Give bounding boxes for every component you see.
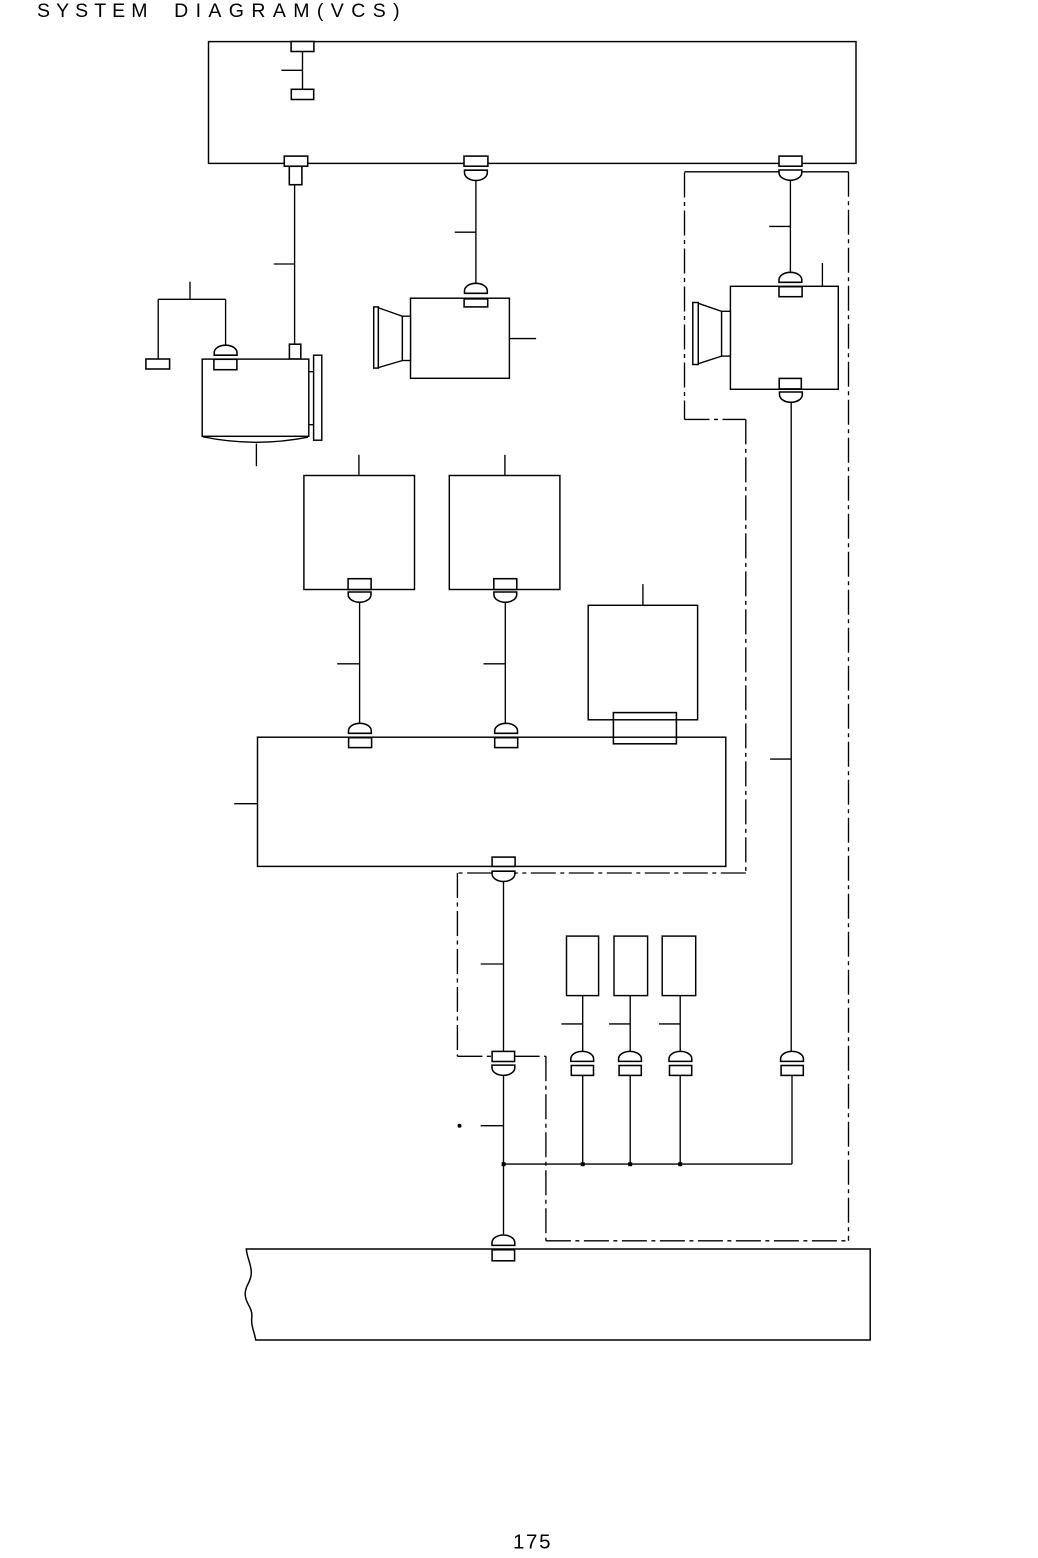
tick on wire W14 — [659, 1023, 680, 1025]
wire W12 upper — [582, 996, 584, 1052]
terminal R3 — [289, 344, 300, 359]
tick on wire W1 — [274, 263, 295, 265]
wire W13 lower — [629, 1075, 631, 1164]
shield dash-dot left edge — [684, 173, 686, 420]
connector C8 socket — [348, 592, 371, 602]
wire W11 upper — [503, 882, 505, 1052]
shield dash-dot segment e — [456, 873, 458, 1056]
junction dot 4 — [678, 1162, 682, 1166]
wire W4 upper — [790, 402, 792, 1051]
speaker right lead — [225, 299, 227, 345]
bus wire — [504, 1163, 793, 1165]
svg-text:175: 175 — [513, 1531, 551, 1554]
tick on wire W13 — [609, 1023, 630, 1025]
box A stub — [358, 455, 360, 476]
box: sensor 2 — [614, 936, 648, 996]
connector C6 socket — [779, 392, 802, 402]
box: relay B — [449, 476, 560, 590]
wire W11 lower — [503, 1075, 505, 1234]
connector C12 socket — [492, 871, 515, 881]
speaker magnet plate — [314, 355, 322, 440]
connector C6 tab — [779, 378, 801, 389]
wire W10 — [504, 602, 506, 723]
connector C3 socket — [779, 170, 802, 180]
connector C11 plug — [495, 723, 518, 733]
fuse symbol lead — [302, 52, 304, 90]
connector C4 tab — [464, 299, 488, 307]
connector C1 tab — [284, 156, 307, 166]
box: relay A — [304, 476, 415, 590]
speaker plate link lower — [309, 424, 314, 426]
connector C7 plug — [214, 345, 237, 355]
tick on wire W2 — [455, 231, 476, 233]
tick on wire W10 — [484, 663, 506, 665]
inner shield box top edge — [685, 171, 849, 173]
box: main harness (top) — [209, 42, 857, 164]
box: sensor 1 — [567, 936, 599, 996]
shield dash-dot segment h — [545, 1056, 547, 1241]
junction dot 3 — [628, 1162, 632, 1166]
wire W12 lower — [582, 1075, 584, 1164]
shield dash-dot segment b — [745, 419, 747, 873]
tick on wire W11 a — [481, 963, 504, 965]
connector C4 plug — [465, 283, 488, 293]
connector C9 socket — [494, 592, 517, 602]
connector C17 plug — [781, 1051, 804, 1061]
tick on wire W11 b — [481, 1125, 504, 1127]
connector C10 plug — [349, 723, 372, 733]
tick right of left camera — [509, 338, 536, 340]
connector C12 tab — [492, 857, 515, 866]
box C stub — [642, 584, 644, 605]
camera right lens neck — [722, 311, 731, 356]
box: relay C — [588, 605, 697, 720]
speaker feed stub — [189, 282, 191, 300]
box B stub — [504, 455, 506, 476]
connector C10 tab — [349, 738, 372, 748]
shield dash-dot segment a — [685, 418, 746, 420]
connector C2 tab — [464, 156, 488, 166]
wire W9 — [359, 602, 361, 723]
tick above right camera — [821, 263, 823, 286]
page number 175 — [513, 1531, 551, 1554]
terminal R2 — [146, 359, 170, 369]
junction dot 2 — [581, 1162, 585, 1166]
connector C15 plug — [619, 1051, 642, 1061]
shield dash-dot right edge — [848, 172, 850, 1241]
connector C1 plug — [289, 166, 302, 184]
wire W13 upper — [629, 996, 631, 1052]
junction dot 1 — [502, 1162, 506, 1166]
connector R4 block — [613, 713, 676, 744]
connector C17 tab — [781, 1066, 803, 1076]
speaker plate link upper — [309, 371, 314, 373]
connector C9 tab — [494, 579, 517, 590]
camera right lens cone — [698, 303, 721, 363]
speaker cone arc — [203, 437, 308, 442]
camera left lens cone — [378, 308, 402, 368]
box: camera unit right — [730, 286, 838, 389]
speaker feed horizontal — [158, 298, 225, 300]
speaker left lead — [157, 299, 159, 359]
box: vehicle body (bottom) — [245, 1249, 870, 1340]
speaker bottom stub — [255, 444, 257, 467]
tick on wire W12 — [561, 1023, 582, 1025]
shield dash-dot segment d — [457, 872, 492, 874]
wire W1 — [294, 185, 296, 345]
connector C5 tab — [779, 287, 802, 297]
wire W2 — [475, 181, 477, 284]
connector C18 tab — [492, 1250, 514, 1261]
wire W4 lower — [791, 1075, 793, 1164]
fuse symbol tick — [281, 69, 302, 71]
wire W14 lower — [679, 1075, 681, 1164]
connector C16 tab — [670, 1066, 692, 1076]
tick on wire W9 — [337, 663, 359, 665]
tick left of control unit — [234, 803, 257, 805]
connector C3 tab — [779, 156, 802, 166]
camera right lens hood — [693, 303, 699, 365]
connector C5 plug — [779, 272, 802, 282]
box: sensor 3 — [662, 936, 696, 996]
box: control unit (wide) — [258, 737, 726, 866]
fuse symbol top terminal — [291, 42, 314, 52]
connector C18 plug — [492, 1235, 515, 1245]
wire W14 upper — [679, 996, 681, 1052]
connector C2 socket — [465, 170, 488, 180]
connector C8 tab — [348, 579, 371, 590]
shield dash-dot segment i — [546, 1240, 849, 1242]
connector C14 plug — [571, 1051, 594, 1061]
wire W3 — [789, 180, 791, 271]
stray dot — [458, 1124, 462, 1128]
title: SYSTEM DIAGRAM(VCS) — [37, 0, 400, 22]
shield dash-dot segment g — [515, 1055, 546, 1057]
fuse symbol bottom terminal — [291, 89, 313, 99]
box: camera unit left — [411, 298, 510, 378]
tick on wire W4 — [770, 758, 791, 760]
connector C11 tab — [495, 738, 518, 748]
connector C13 socket — [492, 1065, 515, 1075]
camera left lens neck — [402, 316, 410, 360]
camera left lens hood — [374, 307, 379, 368]
tick on wire W3 — [769, 225, 790, 227]
shield dash-dot segment f — [457, 1055, 492, 1057]
connector C14 tab — [571, 1066, 593, 1076]
box: speaker unit — [202, 359, 309, 436]
connector C7 tab — [214, 359, 237, 369]
shield dash-dot segment c — [515, 872, 746, 874]
connector C15 tab — [619, 1066, 641, 1076]
connector C16 plug — [669, 1051, 692, 1061]
connector C13 tab — [492, 1051, 514, 1061]
